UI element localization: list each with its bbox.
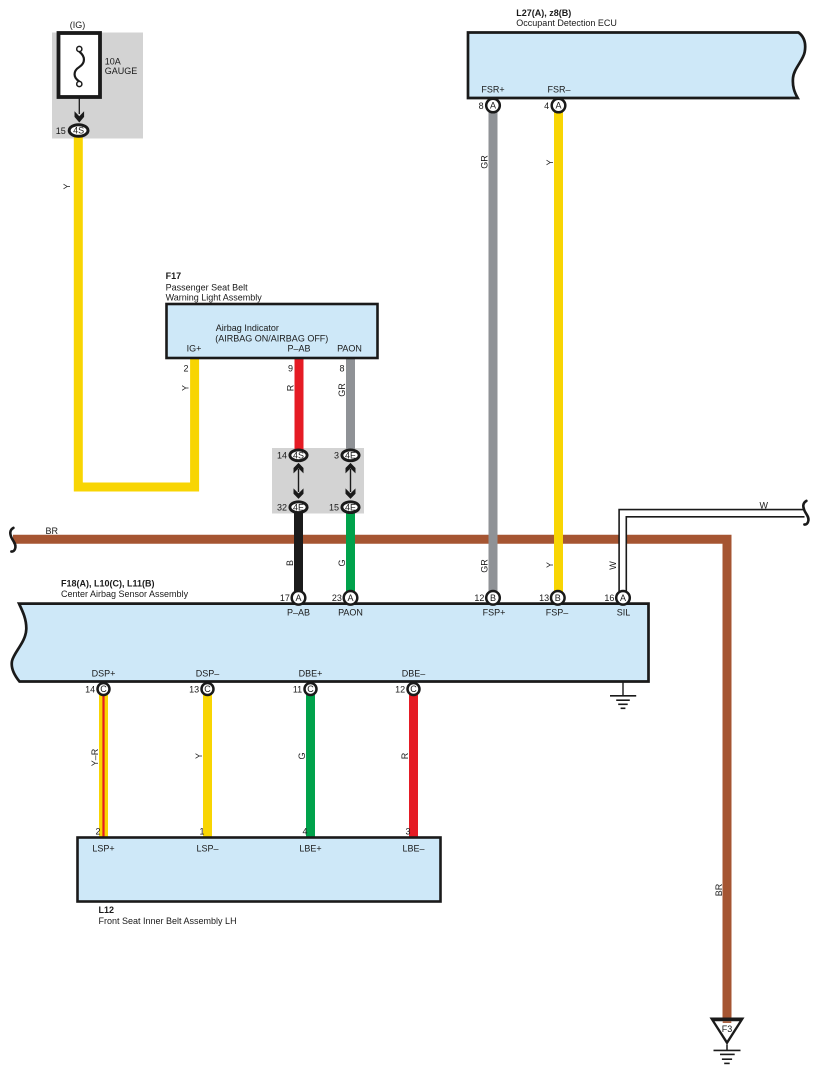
wire Y from fuse 4S down and right and up to F17 IG+ pin 2 [78, 135, 194, 487]
svg-text:11: 11 [293, 684, 302, 694]
ground symbol under center box [622, 682, 624, 696]
svg-text:B: B [285, 560, 295, 566]
svg-text:G: G [297, 752, 307, 759]
svg-text:IG+: IG+ [187, 343, 202, 353]
svg-text:14: 14 [85, 684, 95, 694]
svg-text:DBE–: DBE– [402, 669, 426, 679]
pin 11 circle C (DBE+) [305, 683, 317, 695]
pin 13 circle C (DSP-) [202, 683, 214, 695]
svg-text:A: A [295, 593, 301, 603]
junction connector block shaded background [272, 448, 364, 514]
svg-text:A: A [620, 593, 626, 603]
wire BR main (horizontal run turning down to F3 ground) [13, 539, 727, 1021]
svg-text:FSR+: FSR+ [481, 85, 504, 95]
pin 16 circle A (SIL) [616, 591, 630, 605]
svg-text:1: 1 [199, 827, 204, 837]
svg-text:L12: L12 [99, 905, 115, 915]
svg-text:4E: 4E [293, 502, 304, 512]
double arrow between 4E(3) and 4E(15) [350, 469, 352, 492]
svg-text:(AIRBAG ON/AIRBAG OFF): (AIRBAG ON/AIRBAG OFF) [215, 334, 328, 344]
junction connector oval 4E (pin 32) [290, 502, 307, 513]
svg-text:17: 17 [280, 593, 290, 603]
svg-text:4S: 4S [293, 451, 304, 461]
junction connector oval 4E (pin 3) [342, 450, 359, 461]
svg-text:GR: GR [480, 155, 490, 169]
wire GR from ECU FSR+ pin 8 to center box FSP+ pin 12 [489, 110, 498, 592]
svg-text:P–AB: P–AB [287, 343, 310, 353]
svg-text:R: R [286, 384, 296, 391]
svg-text:GR: GR [337, 383, 347, 397]
svg-text:Y: Y [181, 385, 191, 391]
ground symbol under F3 [726, 1045, 728, 1051]
svg-text:8: 8 [479, 101, 484, 111]
svg-text:F17: F17 [166, 271, 182, 281]
svg-text:DSP–: DSP– [196, 669, 220, 679]
double arrow between 4S(14) and 4E(32) [298, 469, 300, 492]
svg-text:Passenger Seat Belt: Passenger Seat Belt [166, 282, 249, 292]
wire G from junction 4E pin 15 to center box pin 23 [346, 512, 355, 592]
break symbol at BR left end [10, 528, 15, 552]
svg-text:BR: BR [46, 526, 59, 536]
pin 12 circle C (DBE-) [408, 683, 420, 695]
wire B from junction 4E pin 32 to center box pin 17 [294, 512, 303, 592]
svg-text:C: C [410, 684, 417, 694]
svg-text:A: A [490, 101, 496, 111]
svg-text:F18(A), L10(C), L11(B): F18(A), L10(C), L11(B) [61, 579, 155, 589]
svg-text:G: G [337, 559, 347, 566]
svg-text:LBE+: LBE+ [299, 843, 321, 853]
svg-text:GR: GR [480, 559, 490, 573]
svg-text:SIL: SIL [617, 608, 631, 618]
svg-text:15: 15 [56, 126, 66, 136]
svg-text:Center Airbag Sensor Assembly: Center Airbag Sensor Assembly [61, 589, 189, 599]
wire R from center box DBE- pin 12 to L12 LBE- pin 3 [409, 693, 418, 838]
pin 23 circle A (PAON) [344, 591, 358, 605]
fuse block shaded background [52, 33, 143, 139]
svg-text:LSP–: LSP– [196, 843, 218, 853]
svg-text:12: 12 [395, 684, 405, 694]
connector oval 4S (pin 15) below fuse [69, 125, 88, 137]
svg-text:14: 14 [277, 451, 287, 461]
svg-text:Y: Y [62, 183, 72, 189]
svg-text:P–AB: P–AB [287, 608, 310, 618]
svg-text:C: C [100, 684, 107, 694]
svg-text:BR: BR [714, 883, 724, 896]
svg-text:16: 16 [604, 593, 614, 603]
svg-text:LSP+: LSP+ [92, 843, 114, 853]
svg-text:4E: 4E [345, 502, 356, 512]
svg-text:4E: 4E [345, 451, 356, 461]
junction connector oval 4E (pin 15) [342, 502, 359, 513]
svg-text:32: 32 [277, 502, 287, 512]
svg-text:4: 4 [302, 827, 307, 837]
svg-text:W: W [760, 501, 769, 511]
svg-text:13: 13 [189, 684, 199, 694]
svg-text:13: 13 [539, 593, 549, 603]
svg-text:9: 9 [288, 364, 293, 374]
arrow from fuse to connector 4S [78, 97, 80, 114]
svg-text:8: 8 [339, 364, 344, 374]
svg-text:GAUGE: GAUGE [105, 66, 138, 76]
junction connector oval 4S (pin 14) [290, 450, 307, 461]
svg-text:4: 4 [544, 101, 549, 111]
svg-text:PAON: PAON [338, 608, 363, 618]
svg-text:3: 3 [334, 451, 339, 461]
ground F3 triangle [710, 1018, 745, 1046]
svg-text:2: 2 [183, 364, 188, 374]
pin 14 circle C (DSP+) [98, 683, 110, 695]
svg-text:3: 3 [405, 827, 410, 837]
svg-text:C: C [204, 684, 211, 694]
svg-text:DBE+: DBE+ [299, 669, 323, 679]
svg-text:R: R [400, 752, 410, 759]
svg-text:B: B [555, 593, 561, 603]
svg-text:FSP+: FSP+ [483, 608, 506, 618]
svg-text:4S: 4S [73, 126, 84, 136]
svg-text:PAON: PAON [337, 343, 362, 353]
svg-text:Y: Y [194, 753, 204, 759]
svg-text:Y: Y [545, 562, 555, 568]
svg-text:LBE–: LBE– [402, 843, 424, 853]
pin 13 circle B (FSP-) [551, 591, 565, 605]
svg-text:Y: Y [545, 159, 555, 165]
svg-text:Front Seat Inner Belt Assembly: Front Seat Inner Belt Assembly LH [99, 916, 237, 926]
svg-text:L27(A), z8(B): L27(A), z8(B) [516, 8, 571, 18]
wire Y-R from center box DSP+ pin 14 to L12 LSP+ pin 2 [99, 693, 108, 838]
svg-text:Y–R: Y–R [90, 748, 100, 766]
pin 8 circle A [486, 99, 500, 113]
svg-text:FSP–: FSP– [546, 608, 569, 618]
svg-text:Occupant Detection ECU: Occupant Detection ECU [516, 18, 617, 28]
svg-text:Warning Light Assembly: Warning Light Assembly [166, 293, 263, 303]
break symbol at W right end [803, 501, 808, 525]
svg-text:23: 23 [332, 593, 342, 603]
component L12 Front Seat Inner Belt Assembly LH [78, 838, 441, 902]
wire Y from ECU FSR- pin 4 to center box FSP- pin 13 [554, 110, 563, 592]
fuse 10A GAUGE symbol [59, 33, 101, 97]
pin 4 circle A [552, 99, 566, 113]
pin 12 circle B (FSP+) [486, 591, 500, 605]
svg-text:(IG): (IG) [70, 20, 86, 30]
svg-text:12: 12 [474, 593, 484, 603]
svg-text:A: A [555, 101, 561, 111]
svg-text:15: 15 [329, 502, 339, 512]
svg-text:F3: F3 [722, 1024, 733, 1034]
svg-text:FSR–: FSR– [547, 85, 570, 95]
svg-text:Airbag Indicator: Airbag Indicator [216, 323, 279, 333]
svg-text:DSP+: DSP+ [92, 669, 116, 679]
svg-text:A: A [347, 593, 353, 603]
wire Y from center box DSP- pin 13 to L12 LSP- pin 1 [203, 693, 212, 838]
pin 17 circle A (P-AB) [292, 591, 306, 605]
svg-text:W: W [608, 561, 618, 570]
wire W from center box SIL pin 16 up and right (white wire, black outline) [623, 513, 805, 592]
svg-text:B: B [490, 593, 496, 603]
wire GR from F17 PAON pin 8 to junction 4E [346, 358, 355, 450]
wire G from center box DBE+ pin 11 to L12 LBE+ pin 4 [306, 693, 315, 838]
svg-text:2: 2 [95, 827, 100, 837]
svg-text:C: C [307, 684, 314, 694]
wire R from F17 P-AB pin 9 to junction 4S [295, 358, 304, 450]
